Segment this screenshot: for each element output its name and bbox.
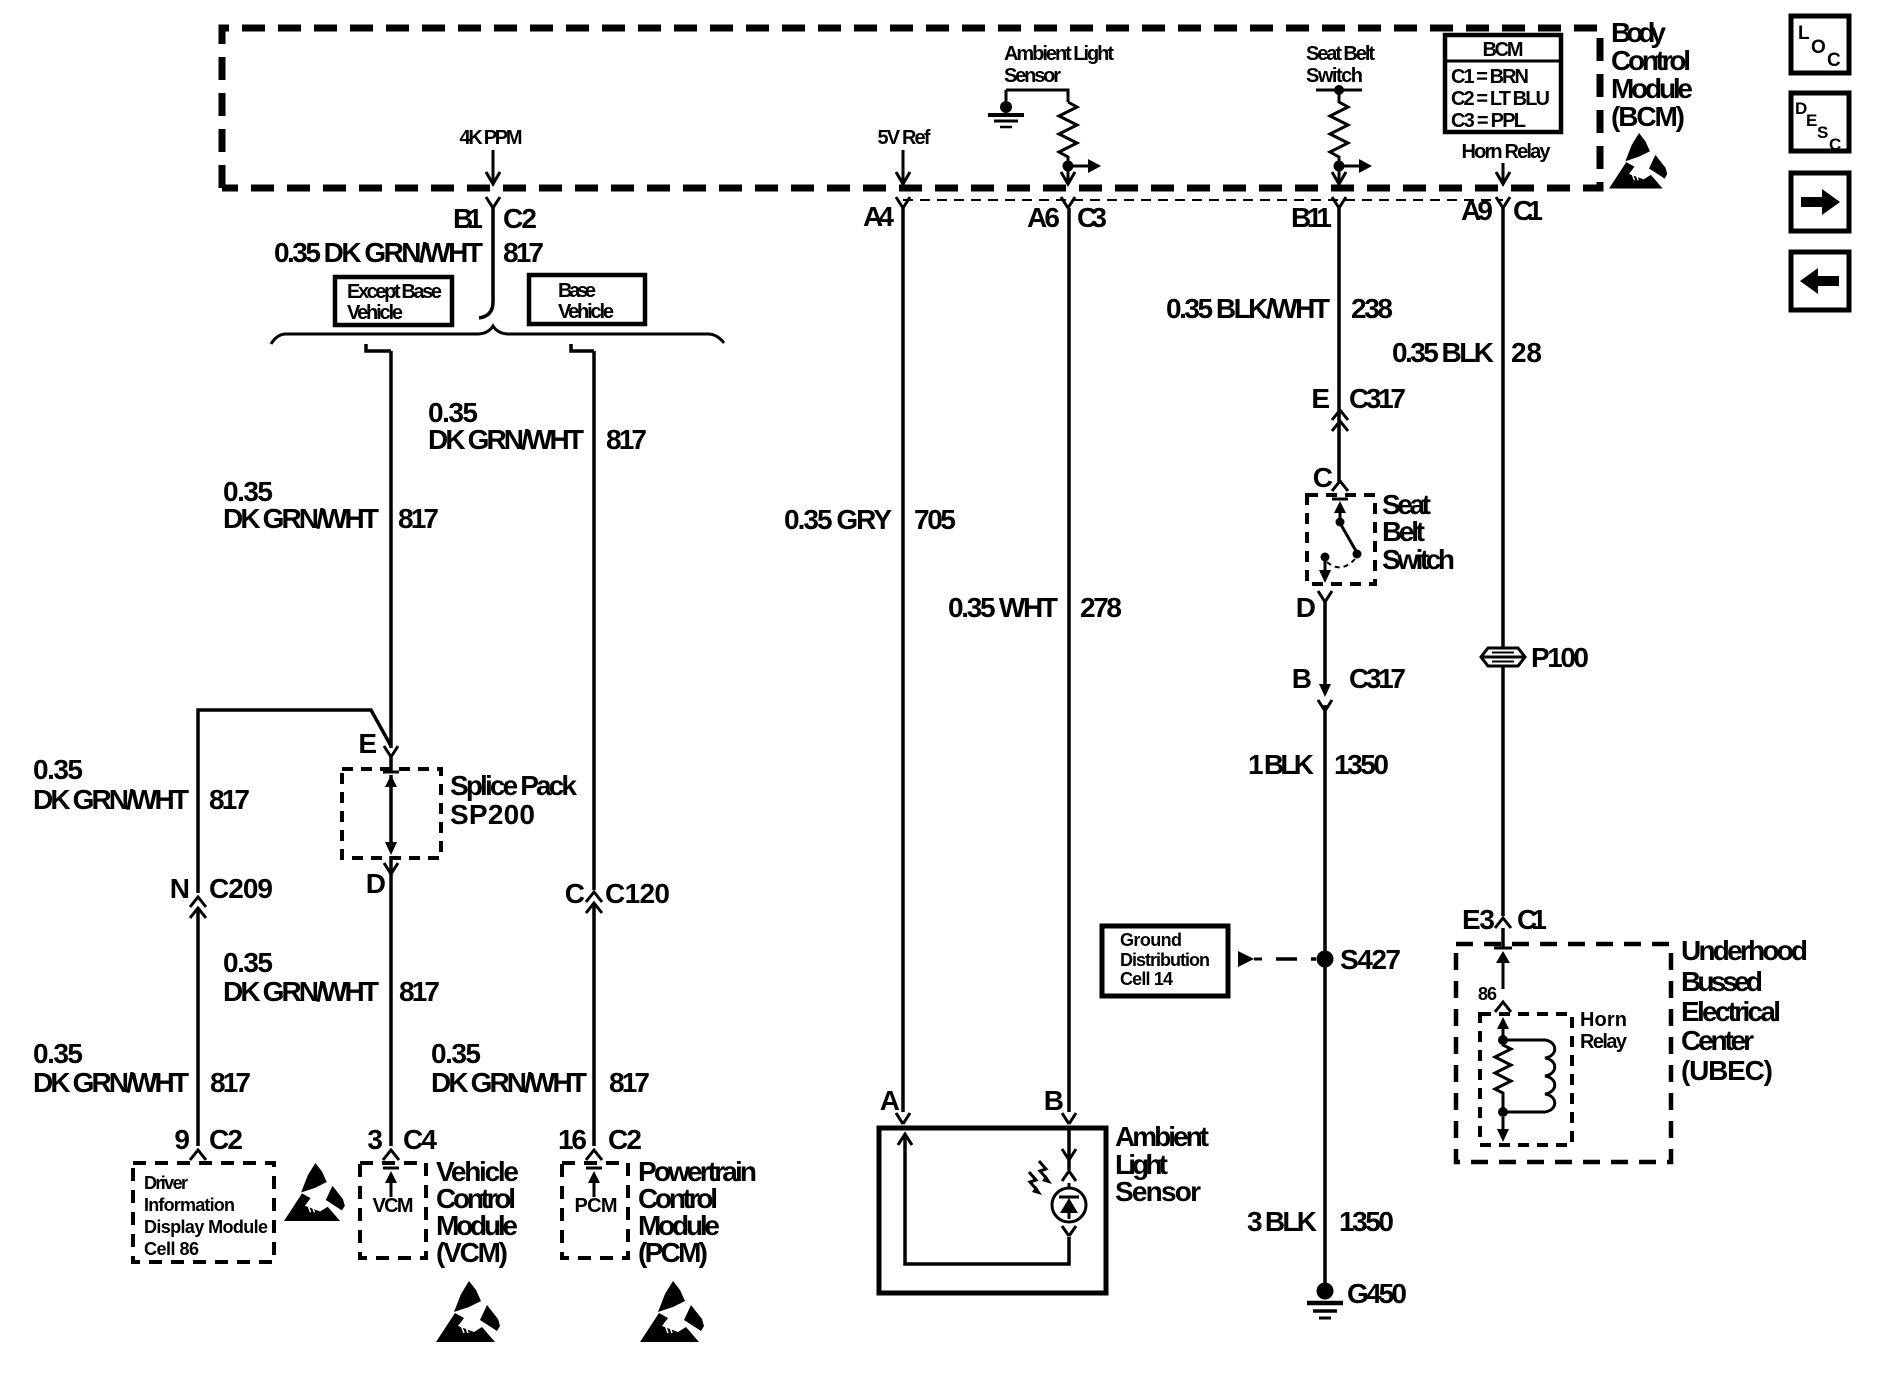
- wire 817 from splice pack D down to VCM: [389, 856, 393, 1146]
- svg-text:Base: Base: [558, 280, 596, 302]
- wire 278 from pin A6/C3 down to ambient light sensor: [1067, 208, 1071, 1112]
- svg-text:Except Base: Except Base: [347, 281, 442, 303]
- svg-text:0.35 GRY: 0.35 GRY: [784, 504, 892, 535]
- svg-text:C317: C317: [1349, 663, 1406, 694]
- svg-text:Switch: Switch: [1382, 544, 1455, 575]
- svg-text:817: 817: [606, 424, 647, 455]
- label: Seat Belt Switch: [1382, 489, 1455, 575]
- value label 0.35 DK GRN/WHT 817 (B1 wire): [274, 237, 544, 268]
- svg-text:28: 28: [1511, 337, 1542, 368]
- navigation button DESC: [1791, 93, 1849, 154]
- navigation button LOC: [1791, 16, 1849, 73]
- svg-text:Driver: Driver: [144, 1173, 188, 1193]
- wire from seat belt switch D to C317: [1323, 602, 1327, 684]
- svg-text:278: 278: [1080, 592, 1122, 623]
- value label 3 BLK 1350: [1247, 1206, 1394, 1237]
- connector pin A9/C1: [1461, 195, 1543, 226]
- connector E3 / C1: [1462, 904, 1547, 935]
- svg-text:1350: 1350: [1339, 1206, 1394, 1237]
- value label 0.35 BLK 28: [1392, 337, 1542, 368]
- module box: Body Control Module (BCM), dashed outline: [222, 28, 1600, 188]
- svg-text:C2 = LT BLU: C2 = LT BLU: [1451, 88, 1550, 110]
- arrow from 5V Ref to pin A4: [896, 150, 910, 184]
- svg-text:Module: Module: [1611, 73, 1693, 104]
- value label 0.35 BLK/WHT 238: [1166, 293, 1393, 324]
- wire 705 from pin A4 down to ambient light sensor: [901, 208, 905, 1112]
- callout box: Ground Distribution Cell 14: [1102, 926, 1228, 996]
- splice pack SP200 dashed box: [342, 769, 441, 858]
- svg-text:238: 238: [1351, 293, 1393, 324]
- resistor: seat belt switch pull-up: [1330, 90, 1348, 162]
- svg-text:Ambient Light: Ambient Light: [1004, 43, 1114, 65]
- svg-text:C2: C2: [608, 1124, 642, 1155]
- wire from E3 into UBEC: [1501, 928, 1505, 948]
- svg-text:D: D: [366, 868, 386, 899]
- ESD symbol below VCM: [436, 1281, 500, 1342]
- value label 0.35 GRY 705: [784, 504, 956, 535]
- value label 0.35 DK GRN/WHT 817 (DIDM wire upper): [33, 754, 250, 815]
- ground symbol (internal, ambient light sensor circuit): [988, 90, 1024, 127]
- junction node on seat belt switch wire: [1334, 161, 1345, 172]
- svg-text:Information: Information: [144, 1195, 235, 1215]
- svg-text:E: E: [1806, 111, 1817, 130]
- svg-text:Sensor: Sensor: [1115, 1176, 1201, 1207]
- connector pin C at seat belt switch: [1313, 462, 1348, 493]
- internal wire A-side with up arrow: [898, 1134, 1069, 1264]
- wire 817 branch 1 vertical run: [389, 351, 393, 748]
- svg-text:E: E: [1311, 383, 1330, 414]
- svg-text:817: 817: [398, 503, 439, 534]
- connector face dashed line C2/C3/C1: [903, 199, 1503, 201]
- connector N / C209: [170, 873, 273, 918]
- connector pin A at ambient light sensor: [880, 1085, 910, 1124]
- svg-text:C1: C1: [1513, 195, 1543, 226]
- label: Ambient Light Sensor: [1115, 1121, 1209, 1207]
- connector pin D below splice pack: [366, 863, 398, 899]
- svg-text:Vehicle: Vehicle: [347, 302, 403, 324]
- svg-text:Seat Belt: Seat Belt: [1306, 43, 1375, 65]
- photon arrows into photodiode: [1029, 1161, 1052, 1195]
- svg-text:1 BLK: 1 BLK: [1248, 749, 1314, 780]
- navigation button arrow left: [1791, 252, 1849, 310]
- wire 817 from C209 down to DIDM: [196, 908, 200, 1146]
- ground G450: [1307, 1278, 1407, 1318]
- svg-text:Cell 14: Cell 14: [1120, 969, 1173, 989]
- svg-text:0.35: 0.35: [223, 947, 273, 978]
- wire: tap from branch 1 to driver information display module: [198, 710, 391, 893]
- connector E / C317: [1311, 383, 1406, 431]
- svg-text:Vehicle: Vehicle: [558, 301, 614, 323]
- svg-text:BCM: BCM: [1483, 39, 1524, 61]
- svg-text:E: E: [358, 728, 377, 759]
- svg-text:VCM: VCM: [373, 1195, 414, 1217]
- signal tap arrow (seat belt switch): [1339, 159, 1372, 173]
- label: Ambient Light Sensor (internal): [1004, 43, 1114, 87]
- connector pin 16 / C2 at PCM: [558, 1124, 642, 1160]
- splice pack internal terminal (top bar and up arrow): [383, 772, 399, 855]
- svg-text:(VCM): (VCM): [436, 1237, 508, 1268]
- svg-text:L: L: [1798, 23, 1810, 44]
- pass-through grommet P100: [1481, 642, 1589, 673]
- svg-text:Display Module: Display Module: [144, 1217, 268, 1237]
- wire 817 branch 2 vertical run to C120: [592, 351, 596, 890]
- internal supply bar for seat belt switch resistor: [1316, 85, 1362, 95]
- svg-text:0.35 WHT: 0.35 WHT: [948, 592, 1058, 623]
- svg-text:817: 817: [399, 976, 440, 1007]
- svg-text:B: B: [1044, 1085, 1064, 1116]
- junction node on ambient light sensor wire: [1063, 161, 1074, 172]
- svg-text:705: 705: [914, 504, 956, 535]
- switch: seat belt switch contacts: [1319, 499, 1362, 583]
- wire with arrowhead to pin A6: [1061, 166, 1075, 184]
- ESD symbol at BCM: [1609, 133, 1667, 189]
- wire 28 from pin A9/C1 down to P100: [1501, 208, 1505, 648]
- wire 1350 from C317 to splice S427: [1323, 705, 1327, 955]
- svg-text:5V Ref: 5V Ref: [878, 127, 931, 149]
- module box: Powertrain Control Module (dashed): [562, 1163, 628, 1258]
- svg-text:P100: P100: [1531, 642, 1589, 673]
- svg-text:Ambient: Ambient: [1115, 1121, 1209, 1152]
- svg-text:E3: E3: [1462, 904, 1495, 935]
- internal wire B-side with down arrow: [1062, 1128, 1076, 1181]
- svg-text:0.35: 0.35: [33, 1038, 83, 1069]
- svg-text:(UBEC): (UBEC): [1681, 1055, 1773, 1086]
- brace splitting wire 817 into two branches: [271, 326, 724, 344]
- value label 1 BLK 1350: [1248, 749, 1389, 780]
- svg-text:A: A: [880, 1085, 900, 1116]
- svg-text:Horn: Horn: [1580, 1009, 1627, 1031]
- module box: Driver Information Display Module (dashed): [133, 1163, 274, 1262]
- label: Splice Pack SP200: [450, 770, 577, 830]
- svg-text:A4: A4: [863, 201, 894, 232]
- svg-text:DK GRN/WHT: DK GRN/WHT: [223, 503, 379, 534]
- svg-text:SP200: SP200: [450, 799, 535, 830]
- svg-text:B1: B1: [453, 203, 483, 234]
- svg-text:Electrical: Electrical: [1681, 996, 1781, 1027]
- signal tap arrow (ambient light sensor): [1068, 159, 1101, 173]
- svg-text:Body: Body: [1611, 17, 1666, 48]
- module box: Vehicle Control Module (dashed): [360, 1163, 426, 1258]
- svg-text:C: C: [1829, 135, 1841, 154]
- svg-text:Sensor: Sensor: [1004, 65, 1061, 87]
- wire 1350 from S427 to ground G450: [1323, 959, 1327, 1287]
- BCM connector legend table: [1445, 35, 1561, 132]
- svg-text:C120: C120: [605, 878, 670, 909]
- connector B / C317: [1292, 663, 1406, 711]
- svg-text:0.35 BLK: 0.35 BLK: [1392, 337, 1494, 368]
- dashed reference link from callout to S427: [1238, 951, 1316, 967]
- label: Underhood Bussed Electrical Center (UBEC): [1681, 935, 1808, 1086]
- svg-text:A6: A6: [1027, 202, 1060, 233]
- svg-text:0.35 DK GRN/WHT: 0.35 DK GRN/WHT: [274, 237, 483, 268]
- connector C / C120 on branch 2: [565, 878, 670, 913]
- arrow from Horn Relay to pin A9: [1496, 163, 1510, 184]
- svg-text:C317: C317: [1349, 383, 1406, 414]
- connector pin B at ambient light sensor: [1044, 1085, 1076, 1124]
- svg-text:DK GRN/WHT: DK GRN/WHT: [223, 976, 379, 1007]
- value label 0.35 DK GRN/WHT 817 (DIDM wire lower): [33, 1038, 251, 1098]
- svg-text:0.35 BLK/WHT: 0.35 BLK/WHT: [1166, 293, 1330, 324]
- arrow from 4K PPM to pin B1: [486, 150, 500, 184]
- svg-text:C3: C3: [1077, 202, 1107, 233]
- svg-text:N: N: [170, 873, 190, 904]
- svg-text:Switch: Switch: [1306, 65, 1363, 87]
- splice node S427: [1317, 944, 1402, 975]
- svg-text:D: D: [1296, 592, 1316, 623]
- connector pin D below seat belt switch: [1296, 591, 1332, 623]
- option box: Except Base Vehicle: [335, 277, 452, 325]
- component box: Seat Belt Switch (dashed): [1307, 495, 1375, 584]
- photodiode (ambient light sensor element): [1052, 1183, 1086, 1236]
- svg-text:817: 817: [210, 1067, 251, 1098]
- value label 0.35 WHT 278: [948, 592, 1122, 623]
- svg-text:C: C: [565, 878, 585, 909]
- UBEC entry terminal with up arrow: [1494, 948, 1512, 989]
- svg-text:A9: A9: [1461, 195, 1493, 226]
- svg-text:G450: G450: [1347, 1278, 1407, 1309]
- connector pin A6/C3: [1027, 197, 1107, 233]
- svg-text:(PCM): (PCM): [638, 1237, 708, 1268]
- svg-text:Distribution: Distribution: [1120, 950, 1210, 970]
- svg-text:Underhood: Underhood: [1681, 935, 1808, 966]
- wire with arrowhead to pin B11: [1332, 166, 1346, 184]
- svg-text:0.35: 0.35: [431, 1038, 481, 1069]
- wire 28 from P100 to E3/C1: [1501, 666, 1505, 916]
- connector pin E at splice pack: [358, 728, 398, 759]
- wire 817 branch 1 (except base vehicle) top hook: [366, 344, 391, 351]
- ESD symbol at DIDM: [284, 1163, 345, 1221]
- label: Horn Relay (UBEC): [1580, 1009, 1628, 1053]
- svg-text:DK GRN/WHT: DK GRN/WHT: [431, 1067, 587, 1098]
- svg-text:1350: 1350: [1334, 749, 1389, 780]
- module box: Underhood Bussed Electrical Center (dashed): [1456, 944, 1671, 1162]
- svg-text:DK GRN/WHT: DK GRN/WHT: [428, 424, 584, 455]
- svg-text:3: 3: [367, 1124, 383, 1155]
- svg-text:C3 = PPL: C3 = PPL: [1451, 110, 1526, 132]
- svg-text:C: C: [1313, 462, 1333, 493]
- resistor: ambient light sensor pull-up: [1059, 102, 1077, 162]
- svg-text:817: 817: [503, 237, 544, 268]
- svg-text:Center: Center: [1681, 1025, 1754, 1056]
- horn relay coil circuit: [1495, 1017, 1555, 1142]
- svg-text:B: B: [1292, 663, 1312, 694]
- svg-text:Relay: Relay: [1580, 1031, 1628, 1053]
- wire 238 from pin B11 down to C317: [1337, 208, 1341, 482]
- connector pin 9 / C2 at DIDM: [174, 1124, 243, 1160]
- resistor in horn relay: [1495, 1040, 1511, 1112]
- option box: Base Vehicle: [529, 275, 645, 324]
- label: Vehicle Control Module (VCM): [436, 1156, 519, 1268]
- navigation button arrow right: [1791, 173, 1849, 231]
- svg-text:Ground: Ground: [1120, 930, 1182, 950]
- svg-text:DK GRN/WHT: DK GRN/WHT: [33, 1067, 189, 1098]
- component box: Ambient Light Sensor: [879, 1128, 1106, 1293]
- relay box: Horn Relay (dashed): [1480, 1014, 1572, 1145]
- value label 0.35 DK GRN/WHT 817 (VCM wire): [223, 947, 440, 1007]
- svg-text:B11: B11: [1291, 202, 1332, 233]
- connector chevron at horn relay terminal 86: [1495, 1002, 1511, 1012]
- svg-text:3 BLK: 3 BLK: [1247, 1206, 1317, 1237]
- coil winding in horn relay: [1503, 1040, 1555, 1112]
- svg-text:S: S: [1817, 123, 1828, 142]
- label: Seat Belt Switch (internal): [1306, 43, 1375, 87]
- svg-text:817: 817: [609, 1067, 650, 1098]
- wire 817 from pin B1/C2 down to brace: [479, 208, 493, 318]
- connector pin B11: [1291, 197, 1346, 233]
- svg-text:9: 9: [174, 1124, 190, 1155]
- svg-text:Bussed: Bussed: [1681, 966, 1763, 997]
- svg-text:C2: C2: [503, 203, 537, 234]
- svg-text:(BCM): (BCM): [1611, 101, 1685, 132]
- connector pin A4: [863, 197, 910, 232]
- svg-text:16: 16: [558, 1124, 587, 1155]
- svg-text:O: O: [1811, 37, 1826, 58]
- svg-text:C2: C2: [209, 1124, 243, 1155]
- svg-text:817: 817: [209, 784, 250, 815]
- svg-text:Cell 86: Cell 86: [144, 1239, 199, 1259]
- wire 817 branch 2 (base vehicle) top hook: [571, 344, 594, 351]
- svg-text:S427: S427: [1340, 944, 1401, 975]
- svg-text:C: C: [1827, 50, 1841, 71]
- svg-text:C1: C1: [1517, 904, 1547, 935]
- svg-text:C209: C209: [209, 873, 273, 904]
- svg-text:0.35: 0.35: [33, 754, 83, 785]
- svg-text:Horn Relay: Horn Relay: [1462, 141, 1552, 163]
- svg-text:C4: C4: [403, 1124, 437, 1155]
- value label 0.35 DK GRN/WHT 817 (branch 2 upper): [428, 397, 647, 455]
- connector pin 3 / C4 at VCM: [367, 1124, 437, 1160]
- svg-text:Splice Pack: Splice Pack: [450, 770, 577, 801]
- label: Body Control Module (BCM): [1611, 17, 1693, 132]
- svg-text:PCM: PCM: [575, 1195, 618, 1217]
- svg-text:Belt: Belt: [1382, 516, 1425, 547]
- connector pin B1/C2: [453, 197, 537, 234]
- value label 0.35 DK GRN/WHT 817 (branch 1): [223, 476, 439, 534]
- ESD symbol below PCM: [640, 1281, 704, 1342]
- svg-text:86: 86: [1478, 984, 1497, 1004]
- label: Powertrain Control Module (PCM): [638, 1156, 757, 1268]
- svg-text:4K PPM: 4K PPM: [460, 127, 523, 149]
- wire 817 from C120 down to PCM: [592, 903, 596, 1146]
- svg-text:C1 = BRN: C1 = BRN: [1451, 66, 1529, 88]
- value label 0.35 DK GRN/WHT 817 (PCM wire): [431, 1038, 650, 1098]
- svg-text:Control: Control: [1611, 45, 1691, 76]
- svg-text:DK GRN/WHT: DK GRN/WHT: [33, 784, 189, 815]
- wire: ground to resistor (internal): [1006, 90, 1068, 102]
